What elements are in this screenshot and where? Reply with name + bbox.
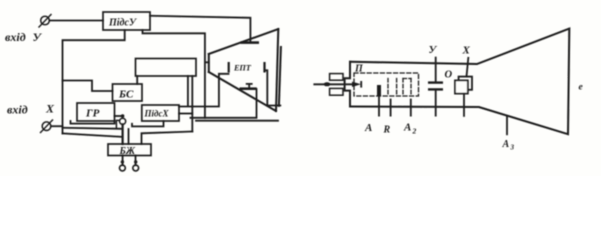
block PidsU (Y amplifier)	[103, 12, 150, 30]
tube envelope outline	[350, 29, 569, 135]
wire: GR bottom to PidsX bottom rail	[71, 121, 115, 124]
wire R2: PidsX right to long vertical	[179, 113, 192, 115]
wire: bottom plate bus	[191, 89, 257, 118]
wire: lower bottom bus	[196, 120, 278, 122]
wire: rail to PidsX bottom	[132, 121, 164, 126]
heater plug brackets	[330, 74, 343, 81]
anode 1 (dashed)	[387, 79, 389, 96]
svg-text:X: X	[45, 102, 55, 116]
wire terminal Y to PidsU	[50, 20, 104, 22]
wire: switch circle left lead	[116, 120, 119, 128]
CRT tube outline	[345, 29, 570, 135]
anode A3 lead on funnel	[506, 116, 508, 135]
heater lead	[314, 83, 352, 85]
svg-text:У: У	[429, 44, 438, 56]
svg-text:X: X	[462, 45, 471, 57]
svg-text:ПідсУ: ПідсУ	[108, 18, 137, 29]
X deflection plates (squares)	[467, 58, 469, 77]
svg-text:БЖ: БЖ	[119, 146, 136, 157]
unlabeled block (delay line)	[136, 59, 197, 77]
block BS (sync)	[113, 84, 143, 101]
svg-text:А: А	[403, 122, 411, 134]
svg-text:R: R	[383, 125, 391, 136]
wire R1: PidsX to left X-plate	[179, 74, 229, 107]
svg-text:вхід: вхід	[7, 103, 28, 117]
modulator electrode	[377, 85, 381, 97]
right X-plate	[263, 62, 265, 73]
wire: left rail to BZh	[63, 133, 122, 136]
top Y-plate of CRT	[241, 41, 260, 44]
CRT top wall	[209, 29, 278, 54]
svg-text:У: У	[33, 30, 43, 44]
svg-text:е: е	[579, 83, 584, 93]
switch terminal circle	[120, 118, 126, 124]
block BZh (power supply)	[108, 144, 151, 156]
svg-text:2: 2	[412, 127, 417, 136]
terminal Y (input Y socket)	[41, 16, 50, 25]
wire: block bottom-right long vertical	[187, 76, 189, 105]
block GR (sweep generator)	[77, 103, 115, 121]
wire W2: PidsU to bottom Y-plate (around left of CRT)	[143, 30, 205, 118]
cathode	[324, 82, 331, 86]
wire: right X-plate lead	[266, 70, 281, 105]
dashed gun enclosure	[354, 73, 419, 96]
wire: PidsU bottom to left rail	[63, 30, 125, 134]
wire rail to BZh	[142, 132, 193, 145]
svg-text:ЕПТ: ЕПТ	[233, 64, 252, 73]
wire: branch to BS sync block	[63, 81, 113, 92]
tube left wall with heater entry notch	[345, 62, 350, 107]
svg-text:БС: БС	[118, 89, 134, 101]
svg-text:вхід: вхід	[5, 30, 26, 44]
wire: long vertical to power rail	[191, 76, 193, 132]
CRT neck edge	[208, 54, 210, 72]
wire GR to switch contact	[115, 115, 121, 117]
CRT funnel (left diagram)	[209, 29, 281, 111]
wire terminal X to left rail	[51, 125, 63, 127]
BZh bottom terminal 2	[135, 156, 137, 166]
terminal X (input X socket)	[42, 122, 51, 131]
CRT bottom wall	[209, 72, 276, 111]
CRT screen inner line	[279, 47, 281, 106]
wire: stub to BZh	[128, 129, 130, 144]
bottom Y-plate of CRT	[240, 87, 257, 90]
svg-text:3: 3	[510, 144, 515, 152]
BZh bottom terminal 1	[122, 156, 124, 166]
switch contact dot	[121, 114, 125, 118]
Y deflection plates (capacitor symbol)	[435, 58, 437, 82]
wire switch circle down to BZh	[121, 124, 123, 144]
block PidsX (X amplifier)	[142, 105, 179, 121]
wire: rail B to BZh	[63, 128, 122, 129]
svg-text:А: А	[502, 139, 510, 150]
svg-text:О: О	[445, 70, 453, 81]
CRT screen edge	[276, 29, 278, 111]
wire: block to BS top	[136, 76, 138, 84]
svg-text:А: А	[364, 122, 372, 134]
wire W1: PidsU output to top Y-plate	[150, 16, 250, 42]
anode 2 (dashed)	[402, 79, 404, 96]
svg-text:ГР: ГР	[85, 108, 100, 120]
wire: neck tick	[205, 61, 209, 63]
svg-text:ПідсХ: ПідсХ	[144, 109, 170, 119]
left X-plate	[228, 62, 230, 73]
